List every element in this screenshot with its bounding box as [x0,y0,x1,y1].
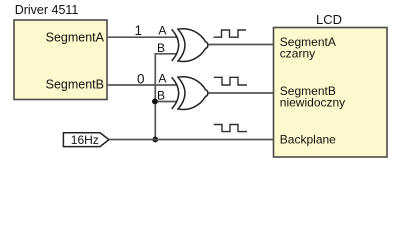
svg-text:SegmentA: SegmentA [46,31,105,45]
svg-text:16Hz: 16Hz [71,133,99,147]
driver block (4511) [14,20,107,100]
svg-text:SegmentB: SegmentB [46,78,104,92]
wire SegmentB -> XOR2 input A [107,84,178,86]
svg-text:1: 1 [135,23,143,38]
svg-text:czarny: czarny [280,47,315,61]
wire 16Hz vertical branch to XOR1 input B [155,54,176,140]
svg-text:A: A [158,24,166,38]
svg-text:LCD: LCD [316,12,342,27]
wire SegmentA -> XOR1 input A [107,36,178,38]
wire 16Hz -> LCD Backplane [109,139,274,141]
junction at 16Hz line [152,137,158,143]
wire XOR2 input B branch [155,101,176,103]
waveform at SegmentA (starts low) [214,30,247,37]
XOR gate U2 (SegmentB) [172,77,208,110]
svg-text:Driver 4511: Driver 4511 [15,3,79,17]
svg-text:0: 0 [137,71,145,86]
LCD block [274,28,388,158]
wire XOR1 output -> LCD SegmentA [208,44,274,46]
svg-text:Backplane: Backplane [280,133,336,147]
junction at XOR2 B [152,99,158,105]
waveform at Backplane (starts high) [214,125,247,132]
16Hz source tag [63,133,109,147]
XOR gate U1 (SegmentA) [172,29,208,62]
waveform at SegmentB (starts high) [214,77,247,85]
wire XOR2 output -> LCD SegmentB [208,92,274,94]
svg-text:B: B [157,89,165,103]
svg-text:niewidoczny: niewidoczny [280,96,345,110]
svg-text:B: B [157,41,165,55]
svg-text:A: A [158,71,166,85]
